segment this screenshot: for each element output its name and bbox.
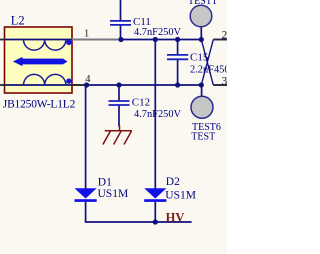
svg-text:US1M: US1M <box>165 189 196 201</box>
svg-text:L2: L2 <box>11 13 25 27</box>
svg-text:D2: D2 <box>166 176 180 188</box>
svg-text:TEST1: TEST1 <box>188 0 217 7</box>
svg-text:JB1250W-L1L2: JB1250W-L1L2 <box>3 98 76 110</box>
svg-text:2: 2 <box>222 30 228 42</box>
svg-text:1: 1 <box>84 28 89 39</box>
svg-text:TEST: TEST <box>191 131 215 142</box>
svg-text:D1: D1 <box>98 176 112 188</box>
svg-text:HV: HV <box>166 210 185 224</box>
svg-text:4.7nF250V: 4.7nF250V <box>134 27 182 38</box>
svg-text:3: 3 <box>222 76 228 88</box>
svg-text:C15: C15 <box>190 51 209 63</box>
svg-text:2.2nF450V: 2.2nF450V <box>190 65 227 76</box>
svg-text:4: 4 <box>85 74 91 85</box>
svg-text:C12: C12 <box>132 97 150 109</box>
svg-text:4.7nF250V: 4.7nF250V <box>134 109 182 120</box>
svg-text:US1M: US1M <box>98 188 129 200</box>
